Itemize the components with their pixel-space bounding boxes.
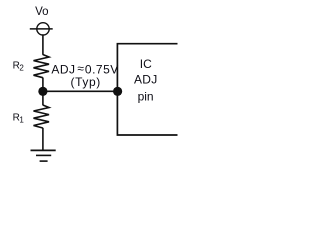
wire node to IC pin xyxy=(43,90,118,92)
resistor R1 xyxy=(34,105,50,128)
IC box (open right side) xyxy=(117,43,178,136)
wire node to R1 xyxy=(42,91,44,105)
svg-text:Vo: Vo xyxy=(35,6,48,18)
svg-text:ADJ: ADJ xyxy=(134,73,158,87)
svg-text:R1: R1 xyxy=(13,112,25,124)
svg-text:(Typ): (Typ) xyxy=(71,75,101,89)
svg-text:IC: IC xyxy=(140,57,152,71)
node junction dot (left) xyxy=(38,87,47,96)
svg-text:pin: pin xyxy=(138,90,154,104)
terminal Vo (circle) xyxy=(37,23,49,35)
resistor R2 xyxy=(34,55,50,78)
svg-text:R2: R2 xyxy=(13,61,25,73)
wire Vo to R2 xyxy=(42,34,44,55)
junction dot at IC pin xyxy=(113,87,122,96)
horizontal bar through Vo terminal xyxy=(30,28,53,30)
wire R1 to ground xyxy=(42,128,44,151)
ground xyxy=(31,150,56,161)
wire R2 to node xyxy=(42,78,44,92)
